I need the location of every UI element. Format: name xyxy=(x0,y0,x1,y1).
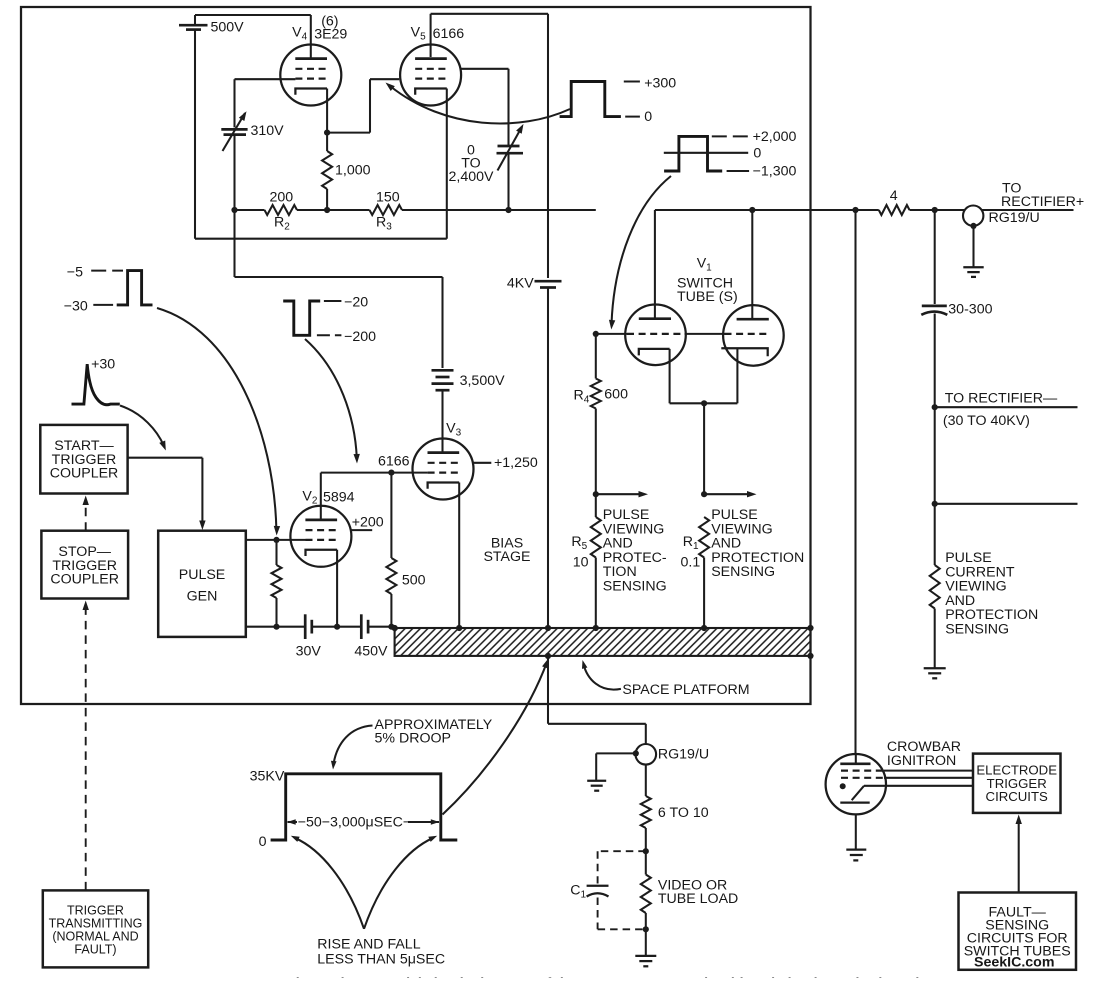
wire V4 control grid to 310V trimmer xyxy=(235,78,296,80)
label SPACE PLATFORM with leader xyxy=(584,664,621,690)
svg-text:1,000: 1,000 xyxy=(335,163,371,179)
label RISE AND FALL LESS THAN 5uSEC with leaders xyxy=(295,838,364,929)
leader arrow -30 waveform to V2 grid xyxy=(157,308,276,530)
svg-text:RECTIFIER+: RECTIFIER+ xyxy=(1001,194,1084,210)
wire rail down to 3,500V battery xyxy=(233,210,235,277)
switch tube V1 right section xyxy=(723,305,784,366)
arrow pulse viewing right xyxy=(704,493,748,495)
capacitor C1 (dashed stray) xyxy=(598,850,646,852)
svg-text:−30: −30 xyxy=(64,299,88,315)
svg-text:450V: 450V xyxy=(354,644,388,660)
svg-text:−5: −5 xyxy=(67,265,83,281)
svg-text:RG19/U: RG19/U xyxy=(989,210,1040,226)
junction rail-1000 xyxy=(324,207,330,213)
junction rail-filter cap branch xyxy=(932,207,938,213)
resistor V2 grid leak xyxy=(275,540,277,565)
junction V4 cathode node xyxy=(324,130,330,136)
leader arrow waveform to switch tube grid xyxy=(612,176,672,324)
battery 450V xyxy=(360,614,363,639)
wire rail corner down to left switch tube anode xyxy=(654,210,656,319)
ignitron igniter electrode xyxy=(864,785,973,787)
wire V3 cathode to platform xyxy=(458,483,460,629)
junction platform right top xyxy=(807,625,813,631)
waveform 35KV output pulse xyxy=(271,774,458,840)
junction rail-crowbar branch xyxy=(852,207,858,213)
wire V2 cathode xyxy=(336,550,338,627)
svg-text:SENSING: SENSING xyxy=(711,564,775,580)
waveform +2,000/0/-1,300 (switch tube grid drive) xyxy=(664,136,722,171)
tube V4 xyxy=(280,45,341,106)
waveform +30 trigger spike xyxy=(72,364,120,405)
junction 500 resistor-rail xyxy=(388,624,394,630)
junction platform left end xyxy=(392,625,398,631)
svg-text:+30: +30 xyxy=(91,357,115,373)
svg-text:0: 0 xyxy=(259,834,267,850)
wire cathode return rail xyxy=(246,626,305,628)
svg-text:GEN: GEN xyxy=(187,589,218,605)
svg-text:150: 150 xyxy=(376,190,400,206)
resistor 6 TO 10 xyxy=(645,765,647,796)
svg-text:0.1: 0.1 xyxy=(681,555,701,571)
wire V3 grid junction xyxy=(391,472,427,474)
svg-text:SeekIC.com: SeekIC.com xyxy=(974,955,1054,971)
battery B1 500V xyxy=(194,15,196,24)
svg-text:STAGE: STAGE xyxy=(483,549,530,565)
wire top supply over V5 xyxy=(431,13,548,15)
wire anode rail (right section) xyxy=(655,209,879,211)
block STOP-TRIGGER COUPLER xyxy=(41,531,128,599)
junction rectifier minus tap xyxy=(932,404,938,410)
svg-text:2,400V: 2,400V xyxy=(449,169,495,185)
svg-text:4: 4 xyxy=(890,188,898,204)
block PULSE GEN xyxy=(158,531,246,637)
resistor R2 200 xyxy=(235,209,265,211)
dashed link trigger transmitting to stop coupler xyxy=(85,604,87,890)
svg-text:3,500V: 3,500V xyxy=(460,373,506,389)
wire rail to bias stage corner xyxy=(402,209,596,211)
waveform -20/-200 (V3 grid drive) xyxy=(283,301,320,335)
variable capacitor 0 TO 2,400V xyxy=(498,145,520,148)
block TRIGGER TRANSMITTING (NORMAL AND FAULT) xyxy=(43,890,148,967)
waveform +300/0 (V5 screen drive) xyxy=(560,82,621,117)
svg-text:+200: +200 xyxy=(352,515,384,531)
svg-text:5% DROOP: 5% DROOP xyxy=(375,731,451,747)
wire start coupler to pulse gen xyxy=(128,457,203,459)
arrow fault sensing to trigger circuits xyxy=(1018,820,1020,893)
switch tube V1 left section xyxy=(625,305,686,366)
pulse cable RG19/U (to rectifier+) xyxy=(963,206,983,226)
svg-text:4KV: 4KV xyxy=(507,276,534,292)
svg-text:+300: +300 xyxy=(644,76,676,92)
svg-text:500: 500 xyxy=(402,573,426,589)
wire V5 screen grid to 0-2400V trimmer xyxy=(460,68,509,70)
crowbar ignitron tube xyxy=(826,754,886,814)
svg-text:6166: 6166 xyxy=(433,26,465,42)
svg-text:TRANSMITTING: TRANSMITTING xyxy=(49,917,143,931)
svg-text:COUPLER: COUPLER xyxy=(50,466,119,482)
junction platform-output lead xyxy=(545,653,551,659)
junction platform-V3 cathode xyxy=(456,625,462,631)
ground (load return) xyxy=(635,955,656,957)
junction sensing tap xyxy=(932,501,938,507)
svg-text:SENSING: SENSING xyxy=(945,622,1009,638)
leader arrow spike to coupler output xyxy=(120,406,164,447)
svg-text:−50−3,000μSEC−: −50−3,000μSEC− xyxy=(298,815,412,831)
wire platform to load cable xyxy=(547,656,549,724)
wire V5 cathode return xyxy=(446,89,448,239)
svg-text:TRIGGER: TRIGGER xyxy=(67,904,124,918)
resistor 500 xyxy=(390,473,392,558)
tube V2 xyxy=(290,506,351,567)
wire +1,250 tap xyxy=(473,462,492,464)
waveform -5/-30 (coupler pulse) xyxy=(117,271,153,305)
wire common grid line (dashed through tubes) xyxy=(596,333,627,335)
ground (cable shield) xyxy=(587,780,606,782)
junction grid drive node xyxy=(593,331,599,337)
ground (sensing return) xyxy=(924,667,946,669)
svg-text:SPACE PLATFORM: SPACE PLATFORM xyxy=(622,682,749,698)
junction platform right bottom xyxy=(807,653,813,659)
wire grid bias rail xyxy=(297,209,370,211)
svg-text:10: 10 xyxy=(573,555,589,571)
svg-text:500V: 500V xyxy=(211,20,245,36)
ground (RG19/U shield) xyxy=(963,266,983,268)
junction rail-2400V cap xyxy=(505,207,511,213)
svg-text:0: 0 xyxy=(753,146,761,162)
wire cable shield to ground xyxy=(596,752,636,754)
battery B2 3,500V xyxy=(432,369,454,372)
battery 30V xyxy=(304,614,307,639)
space platform (hatched chassis bar) xyxy=(395,628,811,656)
leader arrow -200 waveform to V3 grid node xyxy=(305,339,357,458)
block START-TRIGGER COUPLER xyxy=(40,425,127,494)
junction rail-switch tube right anode xyxy=(749,207,755,213)
resistor 4 (series damping) xyxy=(879,205,910,215)
block FAULT-SENSING CIRCUITS FOR SWITCH TUBES xyxy=(959,893,1077,970)
svg-text:PULSE: PULSE xyxy=(179,567,226,583)
junction pulse viewing tap left xyxy=(593,491,599,497)
svg-text:IGNITRON: IGNITRON xyxy=(887,753,956,769)
variable capacitor 310V xyxy=(221,128,247,131)
dimension arrows 50-3,000 uSEC xyxy=(288,821,298,823)
junction load bottom xyxy=(643,926,649,932)
wire right switch tube anode xyxy=(751,210,753,319)
svg-text:600: 600 xyxy=(604,387,628,403)
svg-text:SENSING: SENSING xyxy=(603,579,667,595)
resistor R5 10 xyxy=(591,517,601,558)
svg-text:5894: 5894 xyxy=(323,490,355,506)
arrow pulse viewing left xyxy=(596,493,640,495)
svg-text:TUBE (S): TUBE (S) xyxy=(677,289,738,305)
svg-text:RISE AND FALL: RISE AND FALL xyxy=(317,937,420,953)
wire ignitron to ground xyxy=(855,814,857,848)
wire +200 tap xyxy=(350,529,372,531)
ignitron grid rows to trigger circuits xyxy=(841,769,884,771)
leader arrow waveform to V5 grid xyxy=(390,86,570,124)
junction grid leak-rail xyxy=(273,624,279,630)
resistor 1,000 xyxy=(326,133,328,151)
wire V4 cathode coupling to V5 grid xyxy=(326,89,328,133)
enclosure box (pulser unit outline) xyxy=(21,7,811,704)
svg-text:TUBE LOAD: TUBE LOAD xyxy=(658,891,738,907)
svg-text:COUPLER: COUPLER xyxy=(50,572,119,588)
resistor R1 0.1 xyxy=(699,517,709,558)
wire V2 plate to V3 grid xyxy=(320,473,322,520)
svg-text:−20: −20 xyxy=(344,295,368,311)
junction platform-4KV line xyxy=(545,625,551,631)
svg-text:CIRCUITS: CIRCUITS xyxy=(986,789,1048,804)
svg-text:200: 200 xyxy=(270,190,294,206)
pulse cable RG19/U (load) xyxy=(636,744,657,765)
capacitor 30-300 xyxy=(934,210,936,304)
leader arrow output pulse to platform xyxy=(443,662,548,815)
dashed link stop to start coupler xyxy=(85,499,87,531)
resistor R3 150 xyxy=(370,205,403,215)
svg-text:+1,250: +1,250 xyxy=(494,455,538,471)
junction pulse viewing tap right xyxy=(701,491,707,497)
svg-text:LESS THAN 5μSEC: LESS THAN 5μSEC xyxy=(317,952,445,968)
wire cathode bus xyxy=(669,349,671,403)
svg-text:30-300: 30-300 xyxy=(948,302,992,318)
svg-text:6166: 6166 xyxy=(378,454,410,470)
svg-text:(NORMAL AND: (NORMAL AND xyxy=(52,930,138,944)
svg-text:FAULT): FAULT) xyxy=(74,943,116,957)
junction V2 cathode-rail xyxy=(334,624,340,630)
ignitron cathode xyxy=(840,801,869,803)
resistor R4 600 xyxy=(595,334,597,379)
junction rail-310V branch xyxy=(231,207,237,213)
svg-text:3E29: 3E29 xyxy=(314,27,347,43)
svg-text:−1,300: −1,300 xyxy=(753,164,797,180)
block ELECTRODE TRIGGER CIRCUITS xyxy=(973,754,1061,813)
svg-text:35KV: 35KV xyxy=(250,769,285,785)
ignitron anode xyxy=(840,762,870,765)
tube V5 xyxy=(430,14,432,57)
svg-text:0: 0 xyxy=(644,109,652,125)
svg-text:30V: 30V xyxy=(296,644,322,660)
junction load top xyxy=(643,848,649,854)
svg-text:6 TO 10: 6 TO 10 xyxy=(658,805,709,821)
tube V3 xyxy=(413,439,474,500)
ignitron cathode spot xyxy=(840,783,846,789)
cropped caption fragment at page bottom xyxy=(276,976,940,983)
svg-text:−200: −200 xyxy=(344,329,376,345)
wire pulse gen output to V2 grid xyxy=(246,539,306,541)
resistor VIDEO OR TUBE LOAD xyxy=(641,875,651,914)
svg-text:RG19/U: RG19/U xyxy=(658,747,709,763)
wire crowbar branch xyxy=(854,210,856,754)
svg-text:310V: 310V xyxy=(251,123,285,139)
wire top supply to V4 plate xyxy=(195,14,311,16)
junction platform-R5 xyxy=(593,625,599,631)
junction platform-R1 xyxy=(701,625,707,631)
battery B3 4KV xyxy=(535,280,562,283)
svg-text:(30 TO 40KV): (30 TO 40KV) xyxy=(943,413,1030,429)
svg-text:TO RECTIFIER—: TO RECTIFIER— xyxy=(945,391,1058,407)
ground (ignitron) xyxy=(846,848,866,850)
resistor pulse current sensing xyxy=(934,504,936,565)
svg-text:+2,000: +2,000 xyxy=(753,129,797,145)
